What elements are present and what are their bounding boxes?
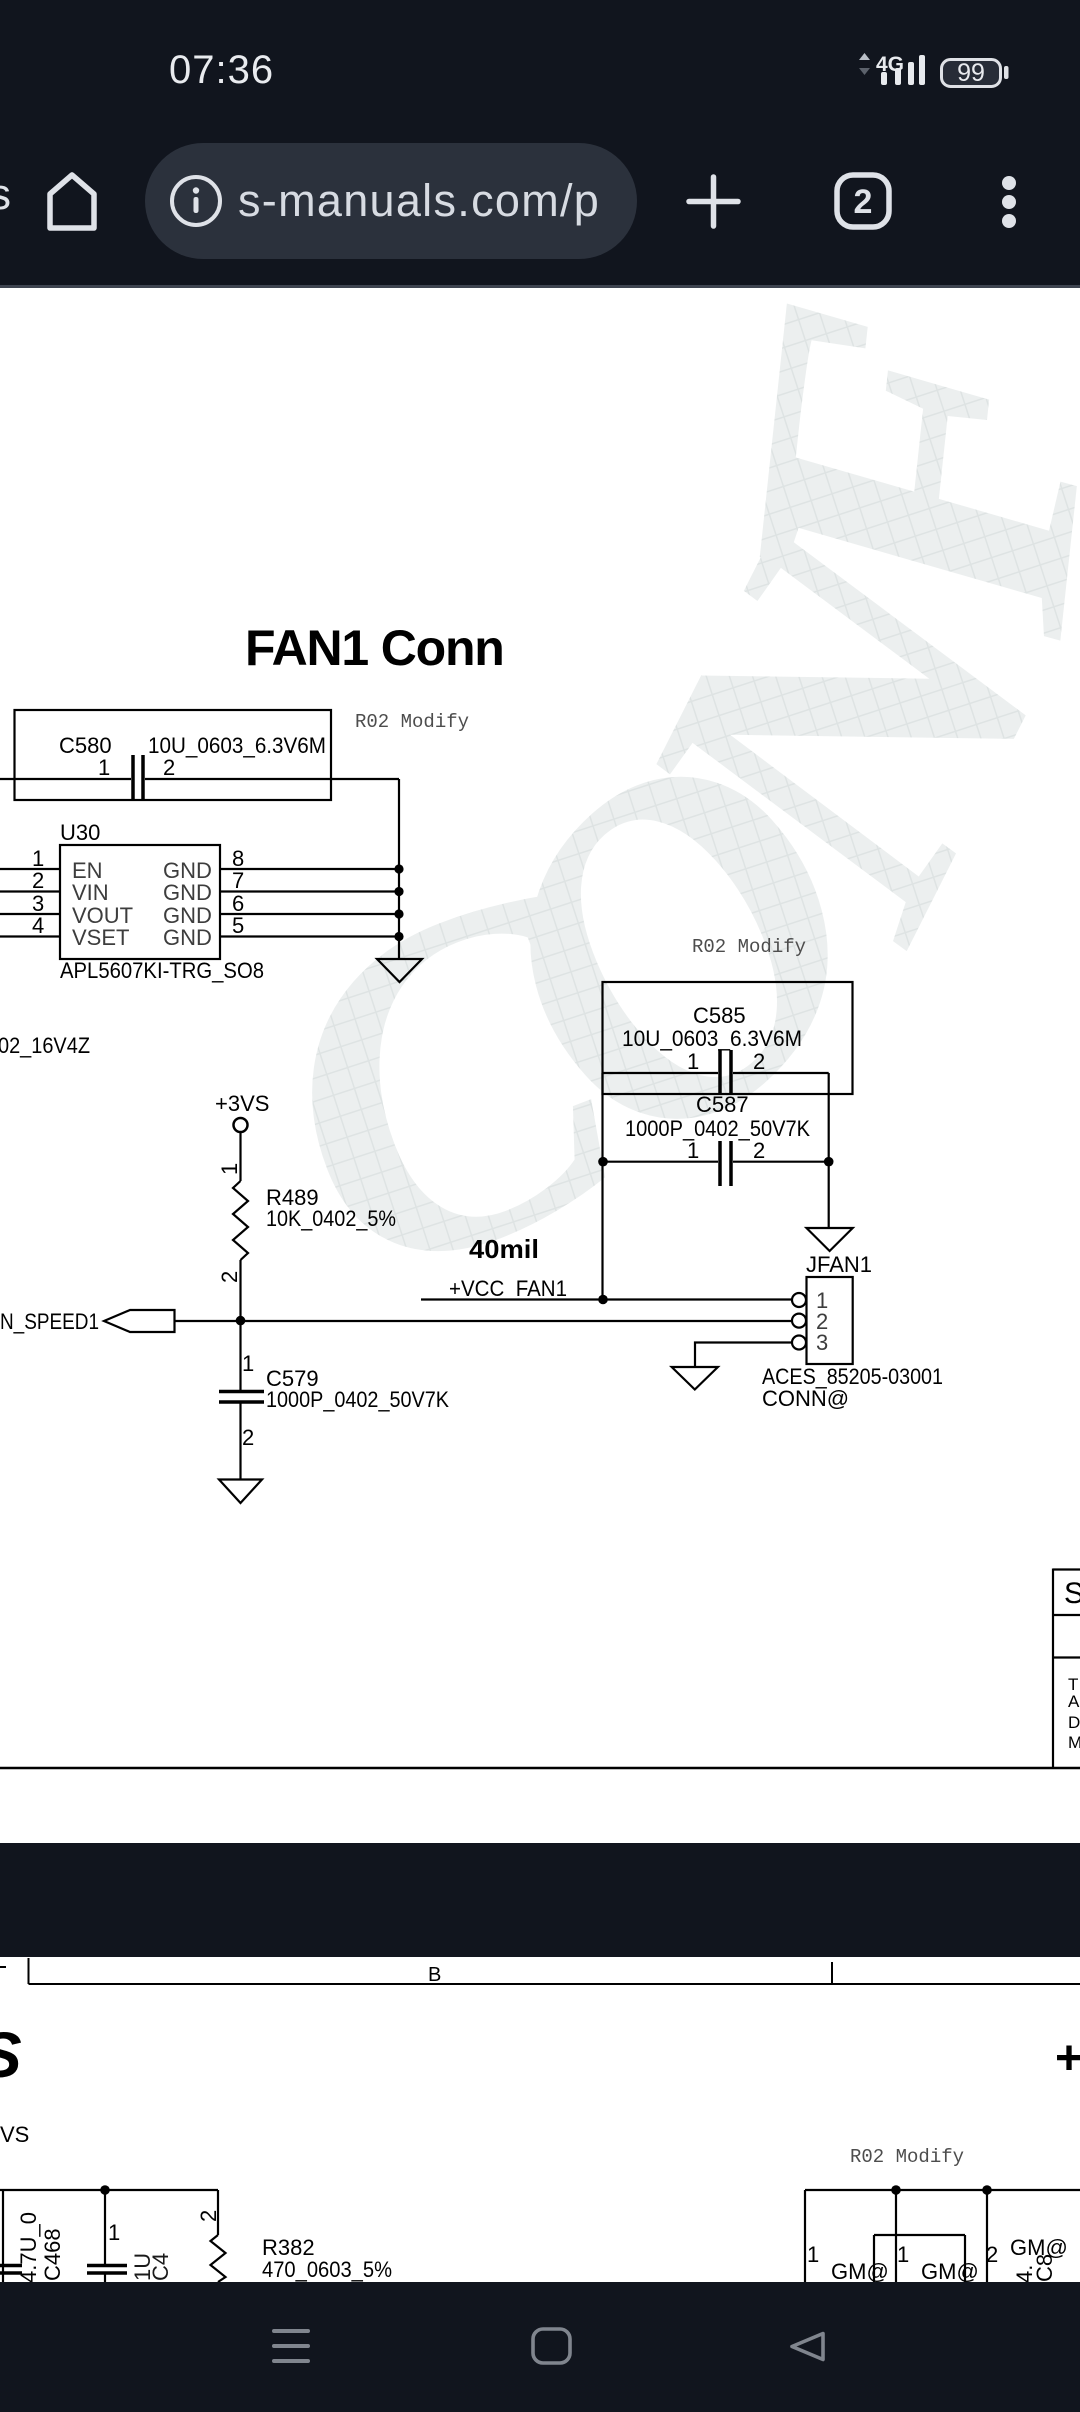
svg-text:R02 Modify: R02 Modify <box>692 936 806 958</box>
svg-text:N_SPEED1: N_SPEED1 <box>0 1309 99 1334</box>
svg-text:M: M <box>1068 1733 1080 1752</box>
svg-text:VSET: VSET <box>72 925 129 950</box>
svg-text:GND: GND <box>163 880 212 905</box>
svg-text:2: 2 <box>217 1271 242 1283</box>
svg-text:CONN@: CONN@ <box>762 1386 849 1411</box>
svg-text:2: 2 <box>753 1049 765 1074</box>
svg-text:R02 Modify: R02 Modify <box>355 711 469 733</box>
svg-text:S: S <box>0 2019 22 2091</box>
svg-text:1: 1 <box>242 1351 254 1376</box>
svg-text:U30: U30 <box>60 820 100 845</box>
svg-text:D: D <box>1068 1713 1080 1732</box>
svg-text:+3VS: +3VS <box>215 1091 269 1116</box>
svg-text:1: 1 <box>217 1163 242 1175</box>
svg-text:10K_0402_5%: 10K_0402_5% <box>266 1206 396 1231</box>
svg-text:VIN: VIN <box>72 880 109 905</box>
svg-text:1000P_0402_50V7K: 1000P_0402_50V7K <box>625 1116 810 1141</box>
svg-text:7: 7 <box>232 868 244 893</box>
svg-text:2: 2 <box>32 868 44 893</box>
svg-text:APL5607KI-TRG_SO8: APL5607KI-TRG_SO8 <box>60 958 264 983</box>
svg-text:2: 2 <box>196 2210 221 2222</box>
svg-text:+VCC_FAN1: +VCC_FAN1 <box>449 1276 567 1301</box>
svg-text:1: 1 <box>687 1049 699 1074</box>
svg-text:R02 Modify: R02 Modify <box>850 2146 964 2168</box>
svg-text:470_0603_5%: 470_0603_5% <box>262 2257 392 2282</box>
svg-text:5: 5 <box>232 913 244 938</box>
svg-text:1: 1 <box>108 2220 120 2245</box>
svg-text:GM@: GM@ <box>921 2259 979 2284</box>
svg-text:4.7U_0: 4.7U_0 <box>16 2212 41 2283</box>
svg-text:4: 4 <box>32 913 44 938</box>
svg-text:VS: VS <box>0 2122 29 2147</box>
svg-text:2: 2 <box>242 1425 254 1450</box>
svg-text:2: 2 <box>753 1138 765 1163</box>
svg-text:JFAN1: JFAN1 <box>806 1252 872 1277</box>
svg-text:GND: GND <box>163 925 212 950</box>
svg-text:S: S <box>1064 1577 1080 1610</box>
svg-text:B: B <box>428 1964 441 1986</box>
svg-text:3: 3 <box>816 1330 828 1355</box>
svg-text:1U: 1U <box>130 2253 155 2281</box>
svg-text:2: 2 <box>854 183 873 221</box>
svg-text:C587: C587 <box>696 1092 749 1117</box>
svg-text:+: + <box>1055 2032 1080 2085</box>
svg-text:1: 1 <box>897 2242 909 2267</box>
svg-text:2: 2 <box>986 2242 998 2267</box>
svg-text:2: 2 <box>163 755 175 780</box>
svg-text:1: 1 <box>807 2242 819 2267</box>
svg-text:1: 1 <box>98 755 110 780</box>
svg-text:1000P_0402_50V7K: 1000P_0402_50V7K <box>266 1387 449 1412</box>
svg-text:FAN1 Conn: FAN1 Conn <box>245 620 504 676</box>
svg-text:C468: C468 <box>40 2228 65 2281</box>
svg-text:1: 1 <box>687 1138 699 1163</box>
svg-text:40mil: 40mil <box>469 1234 539 1264</box>
svg-text:4.: 4. <box>1012 2265 1037 2283</box>
svg-text:02_16V4Z: 02_16V4Z <box>0 1033 90 1058</box>
svg-text:C585: C585 <box>693 1003 746 1028</box>
svg-text:GM@: GM@ <box>831 2259 889 2284</box>
svg-text:10U_0603_6.3V6M: 10U_0603_6.3V6M <box>622 1026 802 1051</box>
svg-text:A: A <box>1068 1692 1080 1711</box>
svg-text:99: 99 <box>957 59 985 87</box>
